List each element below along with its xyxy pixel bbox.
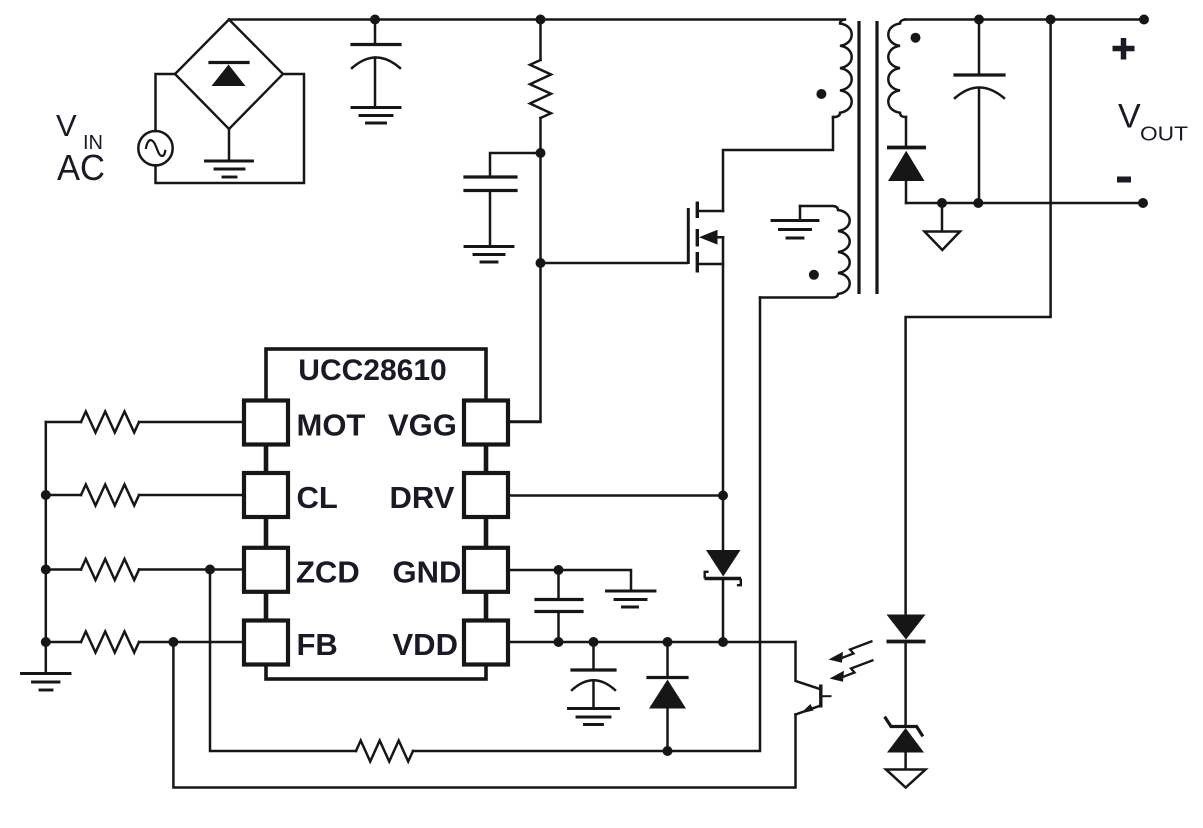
ground output triangle <box>886 770 926 788</box>
diode D1 output rectifier <box>887 148 926 182</box>
wire VGG pin <box>508 421 541 424</box>
bridge rectifier BR1 <box>175 20 283 130</box>
node secondary ground junction <box>937 198 947 208</box>
svg-text:V: V <box>1118 98 1141 136</box>
svg-text:UCC28610: UCC28610 <box>298 354 446 387</box>
node output minus terminal <box>1138 198 1148 208</box>
wire C3 stubs <box>557 570 560 642</box>
node bulk cap junction <box>370 15 380 25</box>
node DRV junction <box>718 491 728 501</box>
wire Z2 to ground <box>904 753 907 770</box>
transformer T1 primary winding <box>833 20 852 118</box>
node ZCD branch <box>205 565 215 575</box>
zener Z1 DRV clamp <box>705 550 742 585</box>
wire ZCD row <box>46 568 244 571</box>
svg-text:V: V <box>56 108 77 143</box>
U1 pin FB <box>244 621 288 665</box>
node C3 bottom <box>554 637 564 647</box>
node ZCD row <box>41 565 51 575</box>
svg-text:DRV: DRV <box>390 480 455 515</box>
wire MOT row <box>46 421 244 424</box>
node feedback tap <box>1046 15 1056 25</box>
svg-text:VDD: VDD <box>393 627 458 662</box>
wire ZCD aux line <box>413 298 760 752</box>
capacitor C5 output <box>955 75 1004 98</box>
label plus <box>1113 38 1135 60</box>
wire bridge to ground <box>228 129 231 161</box>
diode D2 VDD charge <box>648 678 687 709</box>
resistor R3 ZCD <box>81 559 139 580</box>
ground aux <box>772 221 818 239</box>
ground C4 <box>569 709 619 725</box>
wire ZCD drop <box>210 570 356 752</box>
svg-text:ZCD: ZCD <box>296 554 360 589</box>
svg-text:AC: AC <box>57 147 105 188</box>
wire gate <box>541 262 688 265</box>
wire top rail left <box>229 18 844 21</box>
ground C2 <box>465 247 513 263</box>
T1 aux dot <box>809 270 819 280</box>
node FB row <box>41 637 51 647</box>
ground C1 <box>352 108 400 124</box>
node VGG resistor junction <box>536 15 546 25</box>
wire VGG dropper bottom <box>508 118 541 422</box>
wire DRV pin <box>508 494 723 497</box>
svg-text:CL: CL <box>297 480 338 515</box>
resistor R4 FB <box>81 632 139 653</box>
wire C4 stubs <box>592 642 595 709</box>
wire output bottom rail <box>906 202 1143 205</box>
wire CL row <box>46 494 244 497</box>
U1 pin GND <box>464 548 508 592</box>
node D2 top <box>663 637 673 647</box>
wire VGG dropper top <box>539 20 542 61</box>
resistor R5 VGG dropper <box>530 60 551 118</box>
label minus <box>1117 177 1131 183</box>
node D2 bottom <box>663 746 673 756</box>
wire FB drop <box>173 642 795 788</box>
transformer T1 aux winding <box>760 206 850 298</box>
wire AC source loop <box>156 74 305 183</box>
T1 secondary dot <box>911 33 921 43</box>
wire output cap stubs <box>978 20 981 204</box>
ground GND pin <box>607 591 656 607</box>
transformer T1 core <box>859 21 877 294</box>
node zener Z1 top <box>718 637 728 647</box>
T1 primary dot <box>816 89 826 99</box>
capacitor C4 VDD <box>572 670 615 690</box>
U1 pin link bars <box>266 444 486 621</box>
svg-text:FB: FB <box>297 627 338 662</box>
wire secondary to rectifier <box>905 117 908 203</box>
ground left rail <box>22 674 71 691</box>
zener Z2 output <box>886 718 925 753</box>
wire VDD <box>508 641 796 644</box>
opto U2 phototransistor <box>796 642 832 715</box>
diode D3 opto LED <box>887 615 926 642</box>
transformer T1 secondary winding <box>888 20 906 118</box>
wire Z1 bottom <box>722 579 725 643</box>
wire D3 to Z2 <box>904 642 907 727</box>
wire GND pin <box>508 570 631 591</box>
wire left rail <box>45 422 48 674</box>
svg-text:VGG: VGG <box>388 407 457 442</box>
node CL row <box>41 490 51 500</box>
U1 pin VGG <box>464 401 508 445</box>
U1 pin MOT <box>244 401 288 445</box>
opto U2 light arrow 1 <box>829 641 873 663</box>
node C4 top <box>589 637 599 647</box>
node C2 junction <box>536 148 546 158</box>
node output cap top <box>974 15 984 25</box>
ground secondary triangle <box>925 232 961 251</box>
IC U1 UCC28610 body <box>266 349 486 679</box>
svg-text:MOT: MOT <box>297 407 366 442</box>
svg-text:GND: GND <box>393 554 462 589</box>
wire top rail right <box>905 18 1144 21</box>
wire to chassis ground <box>941 203 944 231</box>
label V_OUT <box>1118 98 1189 146</box>
node output plus terminal <box>1139 15 1149 25</box>
ground bridge <box>206 161 253 177</box>
wire aux to ground <box>799 206 802 221</box>
wire drain to primary <box>723 117 833 211</box>
wire source down to zener <box>722 237 725 550</box>
transistor Q1 MOSFET <box>688 202 723 273</box>
node FB branch <box>168 637 178 647</box>
node output cap bottom <box>973 198 983 208</box>
resistor R6 ZCD aux <box>356 741 413 762</box>
opto U2 light arrow 2 <box>830 660 874 682</box>
AC source V1 <box>138 131 172 165</box>
svg-text:OUT: OUT <box>1140 123 1189 146</box>
resistor R1 MOT <box>81 412 139 433</box>
capacitor C3 <box>536 600 582 612</box>
U1 pin VDD <box>464 621 508 665</box>
wire feedback tap down <box>906 20 1051 615</box>
wire FB row <box>46 641 244 644</box>
wire D2 stubs <box>666 642 669 751</box>
capacitor C2 <box>465 177 516 191</box>
label V_IN <box>56 108 105 188</box>
U1 pin CL <box>244 473 288 517</box>
U1 pin DRV <box>464 473 508 517</box>
capacitor C1 bulk <box>352 45 400 69</box>
U1 pin ZCD <box>244 548 288 592</box>
resistor R2 CL <box>81 485 139 506</box>
wire cap C1 stubs <box>374 20 377 108</box>
wire C2 branch <box>490 153 541 247</box>
node C3 top <box>554 565 564 575</box>
node gate junction <box>536 258 546 268</box>
